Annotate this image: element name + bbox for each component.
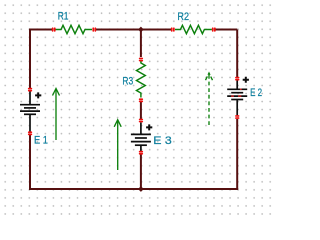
resistor R3: [137, 61, 146, 98]
wire right side lower: [236, 119, 238, 189]
wire top-right segment: [216, 29, 238, 31]
svg-text:R2: R2: [177, 11, 189, 23]
E2 pin marks: [235, 77, 239, 119]
E3 pin marks: [139, 119, 143, 155]
wire middle lower: [140, 155, 142, 190]
svg-text:E 2: E 2: [250, 87, 262, 99]
R2 pin marks: [171, 27, 216, 31]
E3 plus sign: [146, 124, 152, 130]
wire left side lower: [29, 135, 31, 189]
grid background: [0, 0, 276, 217]
svg-text:E 3: E 3: [153, 135, 172, 147]
svg-text:E 1: E 1: [34, 135, 48, 147]
svg-text:R1: R1: [58, 11, 69, 23]
wire top-left segment: [29, 29, 52, 31]
junction node bottom middle: [138, 186, 144, 192]
junction node top middle: [138, 27, 144, 33]
battery E1: [20, 92, 40, 132]
battery E3: [131, 123, 151, 152]
E3 current arrow: [114, 120, 121, 170]
wire middle upper: [140, 30, 142, 58]
R3 pin marks: [139, 58, 143, 103]
wire top-middle segment: [96, 29, 172, 31]
resistor R1: [56, 25, 93, 33]
E1 plus sign: [35, 92, 41, 98]
wire middle between R3 and E3: [140, 102, 142, 119]
svg-text:R3: R3: [122, 76, 133, 88]
E2 current arrow (dashed): [206, 73, 213, 125]
R1 pin marks: [52, 27, 96, 31]
wire left side upper: [29, 30, 31, 89]
wire bottom: [29, 188, 238, 190]
battery E2: [227, 81, 247, 116]
E2 plus sign: [243, 77, 249, 83]
resistor R2: [175, 25, 212, 33]
E1 pin marks: [28, 88, 32, 136]
E2 plate red artifacts: [231, 89, 242, 96]
wire right side upper: [236, 30, 238, 78]
E1 current arrow: [53, 89, 60, 141]
